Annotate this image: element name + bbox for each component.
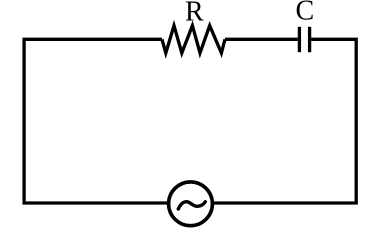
- capacitor C: [299, 27, 309, 52]
- wire: top-left horizontal + left vertical + bottom-left horizontal: [24, 39, 167, 203]
- AC source circle: [169, 182, 213, 226]
- wire: right of source + right vertical + top-right to capacitor: [214, 39, 357, 203]
- svg-text:C: C: [295, 0, 314, 27]
- svg-text:R: R: [185, 0, 204, 28]
- resistor R: [162, 26, 225, 53]
- AC source sine symbol: [178, 202, 205, 209]
- wire: between resistor and capacitor: [225, 38, 298, 41]
